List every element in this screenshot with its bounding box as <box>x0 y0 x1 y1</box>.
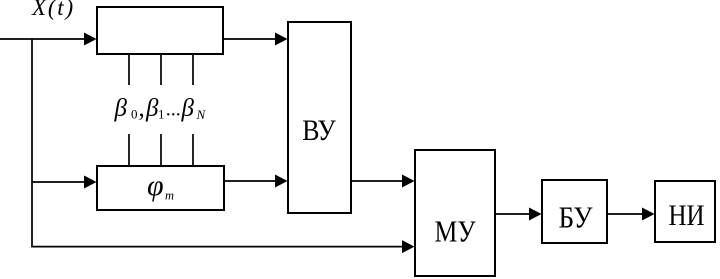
wire coefficient stub 1 lower <box>128 134 130 166</box>
arrowhead into NI <box>642 208 655 221</box>
svg-text:X(t): X(t) <box>31 0 75 20</box>
svg-text:ВУ: ВУ <box>302 114 336 147</box>
wire coefficient stub 2 lower <box>160 134 162 166</box>
svg-text:БУ: БУ <box>559 200 593 235</box>
wire coefficient stub 3 lower <box>192 134 194 166</box>
arrowhead into VU (top input) <box>275 33 288 46</box>
wire vertical branch left <box>31 38 33 246</box>
arrowhead into MU (bottom input) <box>402 240 415 253</box>
arrowhead into MU (top input) <box>402 175 415 188</box>
wire MU output to BU <box>495 213 530 215</box>
wire coefficient stub 2 upper <box>160 54 162 85</box>
block B1 (top, unlabeled filter block) <box>97 7 223 54</box>
wire bottom long horizontal to MU <box>31 246 403 248</box>
wire BU output to NI <box>607 213 643 215</box>
block MU <box>415 150 495 276</box>
arrowhead into block B1 <box>84 33 97 46</box>
arrowhead into VU (lower input) <box>275 175 288 188</box>
arrowhead into phi-m block <box>84 176 97 189</box>
wire coefficient stub 3 upper <box>192 54 194 85</box>
block BU <box>542 180 607 243</box>
svg-text:МУ: МУ <box>435 214 476 249</box>
wire input horizontal to block B1 <box>0 38 85 40</box>
block VU <box>288 22 351 213</box>
wire VU output to MU <box>351 180 403 182</box>
block NI <box>655 181 715 242</box>
wire branch to phi-m block <box>32 181 85 183</box>
arrowhead into BU <box>529 208 542 221</box>
svg-text:НИ: НИ <box>669 199 705 232</box>
wire B1 output to VU <box>223 38 276 40</box>
wire coefficient stub 1 upper <box>128 54 130 85</box>
block phi-m <box>97 166 224 210</box>
wire phi-m output to VU <box>224 180 276 182</box>
